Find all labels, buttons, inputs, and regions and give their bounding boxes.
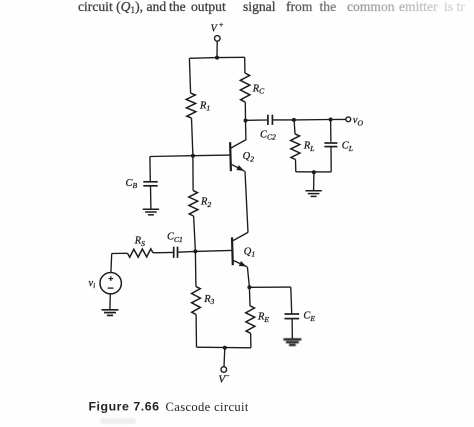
capacitor CE [285,313,300,315]
wire CC1 to node C [178,250,196,253]
wire Q1 emitter drop [247,267,249,288]
resistor R1 [186,93,196,118]
wire V- stem [223,348,226,367]
wire RE to bottom rail [250,333,252,348]
node B (Q2 base node) [191,154,195,158]
wire vi to RS [112,252,128,254]
wire node F to CE [249,286,290,288]
V- supply terminal [221,367,227,373]
wire V+ stem [216,41,218,57]
node G junction at RL [292,118,296,122]
wire node B to R2 [192,156,194,191]
wire node G to RL [293,120,296,134]
wire R1 to node B [192,118,193,156]
svg-text:the: the [169,0,186,14]
node A junction at V+ rail [215,56,219,60]
node D junction at V- lead [223,346,227,350]
wire RC top [244,57,246,73]
wire node C to R3 [194,251,197,286]
wire CB drop [149,157,151,182]
wire Q2 base [193,154,230,157]
svg-text:is tr: is tr [444,0,465,14]
svg-text:Figure 7.66: Figure 7.66 [89,400,160,414]
wire node H to CL [330,120,332,142]
wire RC to node E [244,102,246,120]
svg-text:from: from [286,0,313,14]
cropped body text at top of page [78,0,465,15]
resistor RL [291,134,300,160]
transistor Q1 [231,237,234,265]
source vi [100,273,121,294]
wire RS to CC1 [153,251,173,253]
capacitor CL [324,142,337,144]
node E (Q2 collector node) [244,119,248,123]
svg-text:+: + [218,20,223,29]
svg-text:output: output [191,0,226,14]
wire output rail [294,118,346,121]
svg-text:signal: signal [243,0,276,14]
wire R2 to node C [194,216,196,251]
wire top rail [189,57,244,58]
node F (Q1 emitter node) [247,285,251,289]
capacitor CC1 [173,247,175,258]
wire RL to output ground rail [295,160,297,172]
wire output ground stem [313,172,315,190]
vo output terminal [346,117,351,122]
svg-text:the: the [320,0,337,14]
svg-text:common: common [347,0,395,14]
faint print bleed-through smudge below caption [100,418,136,424]
ground at CB [143,208,159,210]
resistor RC [240,73,250,102]
wire node E to CC2 [246,119,268,121]
resistor RS [128,249,154,257]
svg-text:–: – [224,370,230,380]
resistor RE [246,306,255,334]
wire CB to ground [150,186,152,209]
resistor R2 [189,191,198,216]
wire vi source drop [110,254,113,273]
wire CE to ground [291,319,293,339]
wire left rail to R1 [189,58,190,93]
wire Q1 base [195,250,231,251]
resistor R3 [192,286,201,314]
wire CL bottom [330,147,332,172]
wire vi to ground [109,294,111,310]
wire CC2 to node G [273,119,294,121]
capacitor CC2 [267,115,269,125]
node C (Q1 base node) [193,249,197,253]
wire node B to CB [150,155,193,158]
node H junction at CL [329,118,333,122]
svg-text:emitter: emitter [399,0,438,14]
wire R3 to bottom rail [195,315,197,348]
wire output ground rail [296,171,331,173]
wire Q2 emitter to Q1 collector [245,171,248,232]
transistor Q2 [229,142,232,171]
V+ supply terminal [215,36,221,42]
svg-text:Cascode circuit: Cascode circuit [166,400,249,414]
wire bottom rail [197,346,251,349]
ground at CE [283,339,301,345]
wire CE drop [290,287,293,314]
node I junction at output ground [312,170,316,174]
wire node F to RE [248,287,251,306]
svg-text:and: and [147,0,167,14]
ground at output [305,190,321,192]
capacitor CB [143,181,157,183]
ground at vi [102,309,119,311]
